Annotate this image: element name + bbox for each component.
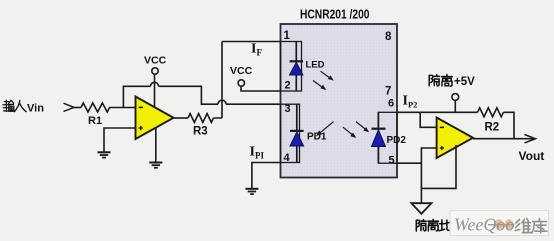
watermark 维库 glyphs: [515, 219, 532, 233]
入 glyph: [14, 101, 26, 112]
output arrow: [525, 135, 536, 143]
离 glyph: [442, 75, 453, 87]
输入 Vin label: [3, 100, 14, 111]
wire VCC mid to pin 2: [241, 87, 281, 91]
svg-text:5: 5: [389, 155, 395, 167]
wire VCC to op-amp1 supply: [154, 75, 156, 108]
light arrow LED to PD a1: [321, 71, 334, 81]
wire op-amp2 non-inverting / pin5 / ground net: [421, 148, 437, 203]
op-amp U1A: [136, 97, 174, 140]
svg-text:4: 4: [284, 152, 291, 164]
ground (pin 4): [245, 189, 258, 194]
wire R2 to output corner: [503, 112, 514, 138]
photodiode PD1: [290, 104, 304, 162]
svg-text:PD1: PD1: [307, 132, 327, 143]
resistor R1: [81, 103, 110, 112]
wire input to R1: [72, 107, 81, 109]
wire op-amp1 ground pin: [155, 125, 157, 162]
photodiode PD1 sub-box (pins 3-4): [281, 104, 300, 162]
LED sub-box (pins 1-2): [281, 42, 302, 92]
隔离地 label: [416, 220, 426, 231]
svg-text:VCC: VCC: [144, 55, 167, 67]
svg-text:VCC: VCC: [230, 65, 253, 77]
op-amp U2: [437, 118, 473, 159]
wire pin 5: [397, 162, 421, 164]
resistor R3: [188, 114, 213, 123]
wire op-amp1 non-inverting to ground: [104, 128, 136, 152]
LED D1: [290, 42, 304, 92]
ground (op-amp1 supply): [149, 163, 162, 168]
watermark box: [450, 211, 549, 236]
svg-text:7: 7: [385, 86, 391, 98]
svg-text:Vin: Vin: [27, 103, 44, 115]
light arrow LED to PD a2: [313, 81, 326, 91]
photodiode PD2 sub-box (pins 6-5): [378, 112, 397, 163]
隔离+5V label: [429, 75, 439, 86]
wire R3 up to pin 1: [214, 42, 281, 119]
photodiode PD2: [372, 112, 386, 163]
svg-text:2: 2: [285, 80, 291, 92]
wire op-amp2 ground pin: [421, 145, 456, 188]
svg-text:3: 3: [285, 103, 291, 115]
svg-text:8: 8: [385, 31, 392, 43]
wire pin 6 bus to R2 corner: [397, 111, 478, 113]
optocoupler U1 HCNR201/200 body: [281, 24, 398, 178]
svg-text:HCNR201 /200: HCNR201 /200: [300, 8, 370, 22]
feedback wire pin3 to op-amp1 inverting input: [123, 82, 280, 107]
svg-text:LED: LED: [306, 60, 325, 71]
svg-text:R2: R2: [485, 122, 500, 134]
svg-text:R3: R3: [193, 126, 208, 138]
wire R1 to op-amp inverting input: [110, 107, 136, 109]
wire pin 4 to ground: [252, 163, 281, 189]
svg-text:PD2: PD2: [387, 135, 407, 146]
wire op-amp2 output: [473, 138, 533, 140]
wire +5V to pin6 bus: [454, 100, 456, 112]
light arrow into PD1 a3: [316, 122, 333, 136]
svg-text:1: 1: [284, 30, 291, 42]
input arrow: [64, 103, 75, 111]
svg-text:6: 6: [388, 98, 394, 110]
VCC terminal (mid): [238, 80, 244, 86]
wire pin6 node down to op-amp2 inverting: [420, 112, 437, 127]
isolated ground symbol: [411, 203, 431, 214]
svg-text:Vout: Vout: [519, 149, 545, 163]
svg-text:R1: R1: [88, 115, 102, 127]
isolated +5V terminal: [452, 94, 459, 101]
VCC terminal (left): [152, 68, 158, 74]
light arrow into PD2 a5: [356, 122, 369, 133]
watermark ellipses: [495, 219, 504, 229]
light arrow into PD2 a4: [343, 127, 356, 138]
ground (op-amp1 + input): [98, 152, 111, 157]
svg-text:+5V: +5V: [454, 76, 475, 88]
wire op-amp1 output to R3: [174, 117, 189, 119]
resistor R2: [478, 108, 504, 117]
